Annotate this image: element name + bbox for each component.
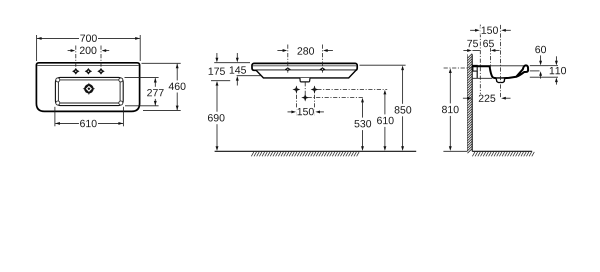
dimension 610 (bowl width, plan) bbox=[54, 107, 56, 127]
drain boss (front) bbox=[300, 78, 310, 82]
centreline tap right (front) bbox=[322, 45, 324, 73]
floor hatching (side) bbox=[472, 152, 475, 156]
tap hole left (front) bbox=[285, 67, 291, 71]
label 175 bbox=[207, 67, 226, 76]
arrow 145 top bbox=[236, 53, 238, 58]
dimension 810 (side) bbox=[449, 68, 452, 73]
basin body (front) bbox=[256, 70, 356, 78]
basin back edge below tab (side) bbox=[476, 71, 478, 78]
dimension 200 (tap hole spacing, plan) bbox=[75, 46, 77, 70]
tap hole centre (plan) bbox=[86, 69, 91, 74]
arrow 145 bottom bbox=[236, 80, 238, 85]
label 110 bbox=[548, 66, 567, 75]
label 60 bbox=[534, 45, 547, 54]
centreline fixing right (front) bbox=[314, 86, 316, 116]
bowl corner circle top-left (plan) bbox=[56, 78, 60, 82]
dimension 810 floor extension line bbox=[443, 150, 467, 152]
drain hole (front) bbox=[303, 95, 307, 99]
tap hole left (plan) bbox=[73, 69, 78, 74]
dimension 690 line bbox=[216, 85, 218, 148]
dimension 75 arrow bbox=[463, 50, 467, 52]
drain boss (side) bbox=[496, 79, 505, 83]
basin section profile (side) bbox=[473, 65, 528, 78]
wall hatching (side) bbox=[468, 54, 473, 59]
dimension 277 (bowl depth, plan) bbox=[125, 77, 159, 79]
fixing height centreline (side) bbox=[444, 67, 473, 69]
dimension 150 (side) bbox=[470, 29, 476, 31]
bowl corner circle bottom-left (plan) bbox=[56, 101, 60, 105]
label 145 bbox=[228, 66, 247, 75]
dimension 700 (plan overall width) bbox=[36, 35, 38, 61]
floor hatching (front) bbox=[251, 152, 254, 156]
centreline drain vertical (front) bbox=[304, 82, 306, 100]
extension 145 bottom bbox=[237, 75, 262, 77]
wall fixing bracket tab (side) bbox=[473, 65, 477, 71]
dimension 530 bbox=[361, 98, 364, 103]
bowl corner circle top-right (plan) bbox=[119, 78, 123, 82]
bowl corner circle bottom-right (plan) bbox=[119, 101, 123, 105]
tap hole right (plan) bbox=[98, 69, 103, 74]
dimension 110 arrows bbox=[555, 56, 557, 61]
washbasin rear rim line (plan) bbox=[37, 64, 139, 66]
dimension 150 (fixing holes, front) bbox=[288, 111, 292, 113]
wall face line (side) bbox=[471, 54, 473, 151]
centreline drain horizontal (front) bbox=[308, 97, 363, 99]
floor line (front) bbox=[215, 150, 417, 152]
basin top slab (front) bbox=[252, 63, 357, 70]
centreline overflow (side) bbox=[489, 48, 491, 71]
inner bowl inner edge (plan) bbox=[58, 80, 120, 103]
drain rosette (plan) bbox=[83, 83, 95, 95]
arrow 175 bottom / dimension 690 top arrow bbox=[216, 81, 219, 86]
fixing hole right (front) bbox=[312, 87, 316, 91]
basin slab rim line (front) bbox=[253, 65, 356, 67]
arrow 175 top bbox=[216, 53, 218, 58]
dimension 610 (front height) bbox=[383, 90, 386, 95]
label 65 bbox=[482, 39, 495, 48]
washbasin outer outline (plan) bbox=[36, 63, 139, 112]
dimension 175/145 top extension line bbox=[214, 62, 250, 64]
dimension 850 bbox=[401, 66, 404, 71]
dimension 850 extension line bbox=[360, 64, 406, 66]
tap hole right (front) bbox=[320, 67, 326, 71]
label 75 bbox=[466, 39, 479, 48]
floor line (side) bbox=[472, 150, 532, 152]
centreline fixing left (front) bbox=[295, 86, 297, 116]
dimension 60 arrows bbox=[540, 55, 542, 61]
inner bowl outer edge (plan) bbox=[55, 77, 123, 105]
wall back edge (side) bbox=[466, 54, 468, 151]
rim top extension line (side) bbox=[530, 65, 558, 67]
dimension 460 (overall depth, plan) bbox=[142, 62, 181, 64]
basin underside line (side) bbox=[472, 77, 492, 79]
basin top surface line (side) bbox=[473, 65, 527, 67]
dimension 65 arrow bbox=[495, 49, 500, 51]
extension 175 bottom bbox=[211, 80, 230, 82]
centreline fixing hole (side) bbox=[479, 25, 481, 99]
centreline drain (side) bbox=[500, 25, 502, 99]
rim bottom extension line (side) bbox=[530, 70, 540, 72]
dimension 225 (side) bbox=[463, 97, 468, 99]
dimension 280 (tap holes, front) bbox=[277, 50, 283, 52]
centreline fixing horizontal (front) bbox=[317, 89, 387, 91]
bowl bottom extension line (side) bbox=[530, 76, 558, 78]
centreline tap left (front) bbox=[287, 45, 289, 73]
fixing hole left (front) bbox=[294, 87, 298, 91]
